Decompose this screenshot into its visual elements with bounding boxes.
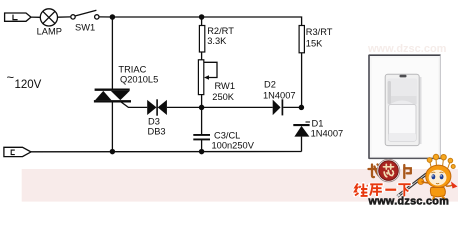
svg-text:R3/RT: R3/RT — [306, 27, 333, 37]
svg-text:1N4007: 1N4007 — [263, 91, 296, 101]
node F junction — [200, 150, 204, 154]
svg-text:250K: 250K — [212, 92, 235, 102]
mascot arm — [422, 182, 429, 184]
terminal C — [4, 147, 31, 156]
resistor R3 body — [299, 26, 304, 53]
svg-text:RW1: RW1 — [215, 81, 236, 91]
svg-text:D2: D2 — [264, 80, 276, 90]
node A junction — [110, 15, 114, 19]
mascot mouth — [436, 182, 439, 185]
logo char zhao (find) — [369, 165, 381, 178]
mascot body — [430, 188, 445, 197]
logo char xin (chip) — [384, 164, 394, 177]
terminal L — [5, 13, 31, 21]
svg-text:3.3K: 3.3K — [207, 36, 227, 46]
wire SW1 to node A — [99, 16, 112, 18]
switch SW1 — [71, 10, 99, 19]
svg-text:DB3: DB3 — [148, 127, 166, 137]
logo char pian (piece) — [404, 165, 411, 178]
dimmer paddle — [389, 105, 416, 142]
dimmer device frame — [385, 74, 419, 145]
mascot hand on pen — [418, 179, 424, 185]
svg-text:R2/RT: R2/RT — [207, 26, 234, 36]
svg-text:www.dzsc.com: www.dzsc.com — [368, 196, 450, 206]
wire lamp to SW1 — [58, 16, 71, 18]
mascot right arm with red pen — [446, 182, 458, 189]
wire D2 to node D — [283, 106, 301, 108]
svg-text:D3: D3 — [148, 116, 160, 126]
svg-text:120V: 120V — [15, 79, 42, 91]
mascot crown — [427, 154, 455, 169]
potentiometer RW1 — [198, 60, 217, 95]
svg-text:SW1: SW1 — [75, 23, 95, 33]
dimmer upper recess — [387, 79, 417, 106]
wire terminal L to lamp — [31, 16, 40, 18]
mascot pen — [396, 174, 426, 198]
wire D1 to bottom corner — [301, 137, 303, 152]
wire R3 to node D — [301, 53, 303, 108]
triac gate wire — [121, 102, 147, 108]
wall plate — [369, 55, 441, 159]
node E junction — [110, 150, 114, 154]
lamp — [40, 9, 57, 26]
svg-text:TRIAC: TRIAC — [118, 64, 146, 74]
node B junction — [200, 15, 204, 19]
svg-text:1N4007: 1N4007 — [311, 129, 344, 139]
watermark pink band — [22, 169, 458, 202]
wire diac to node C — [167, 106, 202, 108]
wire C3 to bottom — [201, 139, 203, 151]
terminal C letter — [11, 150, 15, 155]
svg-text:LAMP: LAMP — [37, 26, 62, 36]
resistor R2 body — [199, 26, 204, 53]
bottom wire — [31, 151, 302, 153]
svg-text:C3/CL: C3/CL — [214, 131, 240, 141]
D1 label leader — [306, 121, 311, 123]
wire node A to node B — [112, 16, 201, 18]
svg-text:15K: 15K — [306, 39, 323, 49]
wire triac to bottom — [111, 102, 113, 152]
wire node A down to triac — [111, 17, 113, 89]
svg-text:Q2010L5: Q2010L5 — [120, 74, 158, 84]
diac D3 — [147, 99, 167, 115]
logo text weikuyixia red — [355, 184, 411, 197]
diode D2 — [273, 99, 283, 115]
mascot head — [426, 165, 451, 187]
dimmer paddle shade — [389, 133, 416, 141]
wire node C to capacitor C3 — [201, 107, 203, 134]
mascot face — [429, 170, 447, 186]
capacitor C3 — [193, 135, 210, 140]
wire node B to R2 — [201, 17, 203, 26]
triac Q2010L5 — [94, 90, 131, 102]
diode D1 — [293, 125, 309, 137]
node D junction — [299, 105, 303, 109]
mascot eyes — [431, 172, 443, 179]
mascot legs — [433, 196, 445, 201]
svg-text:~: ~ — [7, 70, 15, 85]
logo text weikuyixia — [355, 184, 411, 197]
dimmer slider slot — [388, 81, 391, 104]
svg-text:100n250V: 100n250V — [212, 140, 255, 150]
logo seal circle — [377, 159, 400, 182]
wire R2 to RW1 — [201, 52, 203, 60]
label ~120V — [7, 70, 42, 92]
svg-text:www.dzsc.com: www.dzsc.com — [367, 43, 447, 55]
wire node B to R3 top corner — [202, 17, 302, 26]
node C junction — [200, 105, 204, 109]
svg-text:D1: D1 — [312, 119, 324, 129]
wire RW1 to node C — [201, 95, 203, 108]
terminal L letter — [13, 15, 18, 20]
wire node C to D2 — [202, 106, 273, 108]
photo background — [362, 28, 458, 161]
dimmer top notch — [400, 75, 407, 78]
dimmer mid bump — [389, 101, 415, 106]
